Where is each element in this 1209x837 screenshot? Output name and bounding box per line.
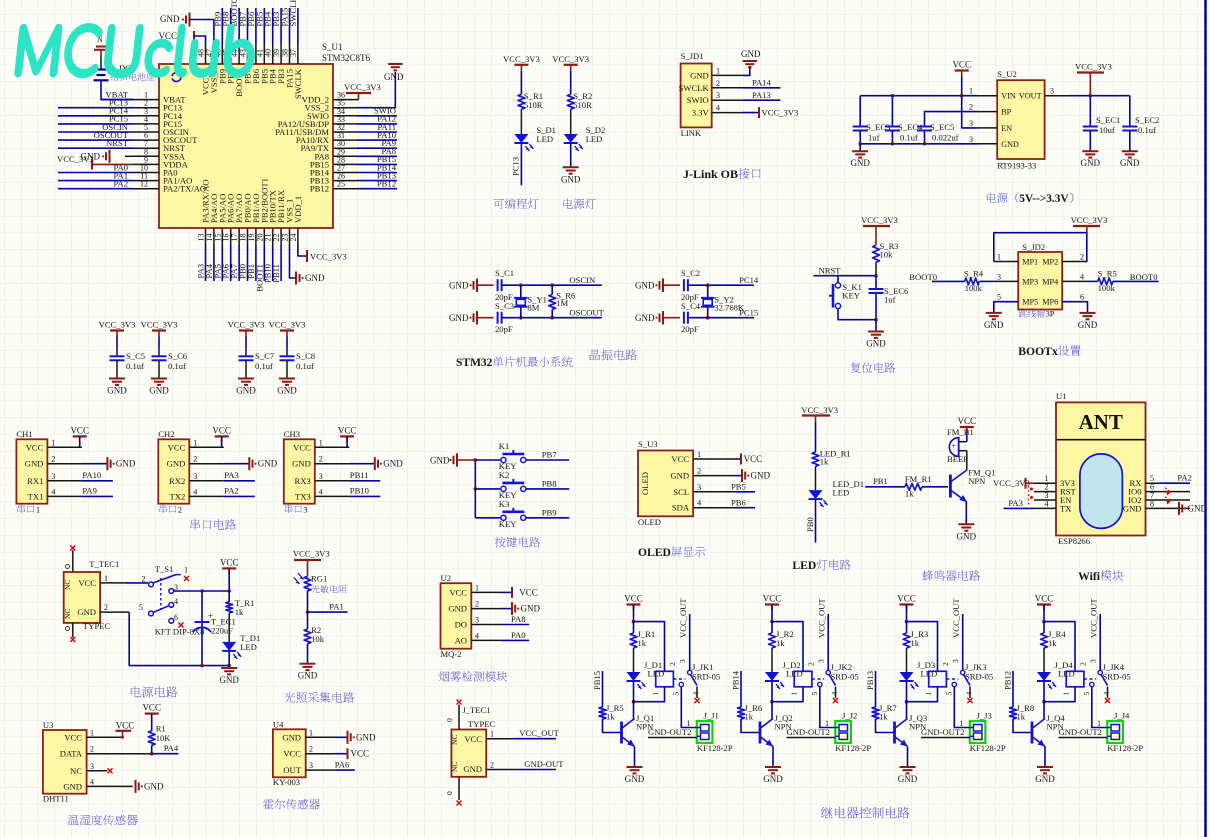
svg-text:KF128-2P: KF128-2P [697,743,733,753]
svg-text:1k: 1k [776,638,785,648]
svg-text:KF128-2P: KF128-2P [835,743,871,753]
ground at U1 VSSA pin 8 [81,150,134,163]
svg-text:MQ-2: MQ-2 [441,649,462,659]
svg-text:VCC_OUT: VCC_OUT [817,598,827,638]
svg-text:NPN: NPN [968,476,986,486]
svg-text:S_C1: S_C1 [495,268,514,278]
wire net PB15 (U1 pin 28) [357,154,397,164]
svg-text:GND: GND [448,604,467,614]
svg-text:3.3V: 3.3V [692,108,710,118]
svg-text:510R: 510R [573,100,592,110]
svg-text:Wifi: Wifi [1078,570,1101,583]
LED J_D4 [1037,660,1075,689]
wire S_C6 top [158,337,160,357]
wire LED to collector ch2 [771,681,773,719]
svg-text:0.022uf: 0.022uf [932,133,959,143]
label BOOTx title [1018,345,1080,358]
wire net VCC_OUT ch4 [1089,598,1101,671]
svg-text:S_U2: S_U2 [997,69,1017,79]
svg-text:GND: GND [521,604,541,614]
svg-text:J_J2: J_J2 [842,711,857,721]
svg-text:1k: 1k [820,457,829,467]
svg-text:1: 1 [790,692,799,696]
ground relay ch4 [1035,767,1055,784]
svg-text:MP3: MP3 [1022,277,1038,286]
svg-text:VCC: VCC [283,749,301,759]
svg-text:4: 4 [1045,499,1049,508]
svg-text:GND: GND [292,459,311,469]
label keys title [495,537,540,548]
svg-text:OSCOUT: OSCOUT [569,307,604,317]
power VCC_3V3 for S_D1 [503,54,540,71]
svg-text:J_JK2: J_JK2 [831,662,853,672]
svg-text:VCC_3V3: VCC_3V3 [141,320,178,330]
svg-text:J_JK4: J_JK4 [1103,662,1125,672]
wire net PB0 (U1 bottom) [238,245,248,281]
svg-text:VCC: VCC [26,442,44,452]
svg-text:KEY: KEY [842,291,860,301]
svg-text:20pF: 20pF [681,324,699,334]
svg-text:GND: GND [1120,158,1140,168]
wire EN to VIN rail [962,96,978,128]
svg-text:100k: 100k [965,283,983,293]
label crystal circuit title [590,349,637,360]
svg-text:NC: NC [63,580,72,590]
wire net PA3 (U1 bottom) [196,245,206,281]
display S_U3 OLED body [638,439,736,527]
svg-text:25: 25 [337,180,345,189]
svg-text:4: 4 [174,597,178,606]
wire J_R5 to base ch1 [603,719,622,733]
wire VCC to relay coil ch1 [634,622,665,672]
connector CH1 body [16,429,82,514]
svg-text:GND: GND [298,671,318,681]
shield stubs T_TEC1 [66,546,76,643]
svg-text:4: 4 [697,499,701,508]
svg-text:SWCLK: SWCLK [679,83,710,93]
wire net NRST (U1 pin 7) [58,138,133,148]
svg-text:1: 1 [319,438,323,447]
wire net PB6 (U1 top) [246,8,256,44]
svg-text:0.1uf: 0.1uf [126,361,144,371]
svg-text:KY-003: KY-003 [273,777,300,787]
wire emitter to ground ch4 [1044,747,1046,768]
svg-text:PA14: PA14 [752,78,771,88]
svg-text:37: 37 [289,49,298,57]
wire emitter to ground ch3 [907,747,909,768]
MCUclub watermark [15,25,257,77]
ground at U1 VSS_1 pin 23 [290,245,325,285]
mcu U1 bottom pins 13-24 [197,228,298,245]
wire S_C5 top [116,337,118,357]
wire net PB11 (CH3 pin3) [349,470,380,481]
svg-text:NC: NC [70,766,82,776]
ground reset [866,320,886,349]
svg-text:GND: GND [625,774,645,784]
ground at S_C4 [635,311,680,325]
wire net PA8 (U2 DO) [501,614,529,624]
connector J_TEC1 TYPEC body [450,705,514,777]
wire T bottom rail [129,612,231,667]
crystal S_Y2 32.768K [701,285,745,318]
wire VCC to relay coil ch3 [907,622,938,672]
wire net PA0 (U2 AO) [501,630,529,640]
wire to LED_R1 [815,422,817,452]
ground relay ch2 [763,767,783,784]
power VCC at U4 pin2 [335,748,369,759]
svg-text:1k: 1k [905,488,914,498]
capacitor S_C4 20pF [681,301,708,334]
svg-text:VCC: VCC [763,594,782,604]
svg-text:AO: AO [455,635,467,645]
ground relay ch1 [625,767,645,784]
shield stubs J_TEC1 [445,700,462,806]
svg-text:S_EC2: S_EC2 [1135,115,1159,125]
svg-text:GND: GND [356,732,376,742]
wire net VCC_OUT ch3 [951,598,963,671]
svg-text:0.1uf: 0.1uf [168,361,186,371]
resistor LED_R1 1k [812,449,851,467]
power VCC relay ch3 [897,594,916,624]
buzzer FM_B1 BEEP [947,427,974,464]
svg-text:CH3: CH3 [284,429,300,439]
svg-text:PB12: PB12 [377,179,396,189]
svg-text:PA2: PA2 [1177,473,1192,483]
svg-text:CH2: CH2 [158,429,174,439]
wire net PA7 (U1 bottom) [229,245,239,281]
label OLED title [638,546,705,559]
svg-text:U1: U1 [1056,391,1067,401]
svg-text:VCC: VCC [519,587,538,597]
resistor R1 10K pullup [148,724,171,756]
ground at CH1 pin2 [82,457,136,470]
svg-text:GND: GND [383,459,403,469]
svg-text:VCC_3V3: VCC_3V3 [993,478,1030,488]
svg-text:2: 2 [178,504,182,514]
crystal S_Y1 8M [514,285,547,318]
label LED circuit title [792,559,850,572]
svg-text:3: 3 [51,472,55,481]
connector J_J2 KF128-2P [835,711,871,754]
svg-text:PB6: PB6 [731,497,747,507]
resistor J_R7 1k [872,703,897,722]
resistor S_R6 1M [549,285,576,318]
svg-text:S_R5: S_R5 [1098,269,1117,279]
svg-text:GND: GND [107,386,127,396]
svg-text:S_C4: S_C4 [681,301,701,311]
ground at CH2 pin2 [224,457,278,470]
svg-text:GND: GND [160,14,180,24]
wire GND rail left [858,142,977,146]
connector J_J4 KF128-2P [1107,711,1143,754]
ground buzzer [957,524,977,541]
svg-text:3: 3 [951,659,960,663]
svg-text:K2: K2 [499,470,510,480]
wire buzzer to FM_Q1 collector [966,451,968,469]
svg-text:VCC: VCC [351,749,370,759]
svg-text:10K: 10K [156,733,172,743]
svg-text:510R: 510R [524,100,543,110]
svg-text:0: 0 [445,718,454,722]
svg-text:EN: EN [1001,124,1012,133]
wire J_R6 to base ch2 [741,719,760,733]
svg-text:LED: LED [792,559,816,572]
svg-text:5: 5 [997,293,1001,302]
connector J_J1 KF128-2P [697,711,733,754]
svg-text:BEEP: BEEP [947,454,968,464]
svg-text:GND: GND [449,313,469,323]
wire net PB11 (U1 bottom) [271,245,281,283]
svg-text:5: 5 [810,692,819,696]
svg-text:J_JK3: J_JK3 [965,662,987,672]
svg-text:VCC_3V3: VCC_3V3 [801,405,838,415]
ground at U4 pin1 [335,731,376,744]
wire VOUT rail [1069,94,1130,98]
svg-text:KF128-2P: KF128-2P [970,743,1006,753]
svg-text:GND: GND [282,732,301,742]
svg-text:1k: 1k [235,607,244,617]
svg-text:+: + [952,442,957,451]
svg-text:4: 4 [1102,692,1111,696]
wire net PC13 below S_D1 [511,143,522,185]
power VCC_3V3 at S_U2 VOUT [1075,62,1112,96]
capacitor S_EC4 0.1uf [885,96,923,144]
wire net PA3 (CH2 pin3) [224,470,255,481]
svg-text:1: 1 [490,730,494,739]
wire net PB3 (U1 top) [271,8,281,44]
wire net PA9 (CH1 pin4) [82,486,113,497]
ground below S_EC1 [1081,151,1101,168]
svg-text:8: 8 [1150,499,1154,508]
svg-text:1uf: 1uf [868,133,880,143]
svg-text:3: 3 [303,504,307,514]
resistor J_R5 1k [599,703,624,722]
wire net PA0 (U1 pin 10) [58,162,133,172]
push button S_K1 KEY [829,276,876,320]
svg-text:1: 1 [104,574,108,583]
svg-text:2: 2 [1080,253,1084,262]
svg-text:SRD-05: SRD-05 [831,672,859,682]
power VCC_3V3 reset [861,215,898,245]
wire net PA2 (CH2 pin4) [224,486,255,497]
svg-text:TX1: TX1 [28,491,44,501]
capacitor S_C2 20pF [681,268,708,302]
svg-text:TX: TX [1060,503,1072,513]
wire net PA8 (U1 pin 29) [357,146,397,156]
wire net NRST [814,265,878,277]
svg-text:PB12: PB12 [1003,671,1013,690]
svg-text:VCC_3V3: VCC_3V3 [861,215,898,225]
svg-text:S_R4: S_R4 [964,269,984,279]
LED J_D2 [765,660,803,689]
svg-text:J_J1: J_J1 [704,711,719,721]
ground at S_C1 [449,279,494,293]
svg-text:T_TEC1: T_TEC1 [89,559,119,569]
mcu U1 right pins 25-36 [333,91,357,189]
svg-text:5V-->3.3V: 5V-->3.3V [1019,193,1069,205]
svg-text:SDA: SDA [672,503,690,513]
svg-text:MP4: MP4 [1042,277,1058,286]
label J-Link OB title [683,167,761,181]
capacitor S_C1 20pF [495,268,521,302]
svg-text:S_JD2: S_JD2 [1022,242,1045,252]
wire relay contact to J_J2 ch2 [820,687,836,728]
label smoke sensor title [439,671,508,682]
svg-text:1k: 1k [745,712,754,722]
svg-text:1k: 1k [606,712,615,722]
svg-text:3: 3 [475,616,479,625]
label light sensor title [284,692,354,703]
svg-text:PA9: PA9 [82,486,97,496]
svg-text:VCC_3V3: VCC_3V3 [310,252,347,262]
svg-text:RX2: RX2 [169,476,185,486]
transistor J_Q3 NPN [895,713,928,747]
svg-text:1: 1 [475,583,479,592]
svg-text:VDD_1: VDD_1 [293,196,303,223]
ground S_U2 left [850,144,870,168]
svg-text:VCC_3V3: VCC_3V3 [344,82,381,92]
svg-text:ANT: ANT [1079,410,1123,434]
svg-text:U4: U4 [273,720,284,730]
wire relay coil to LED junction ch2 [770,687,803,704]
svg-text:S_EC5: S_EC5 [930,122,954,132]
svg-text:5: 5 [672,692,681,696]
svg-text:PB0: PB0 [805,517,815,532]
svg-text:GND: GND [1001,140,1019,149]
regulator S_U2 RT9193-33 body [969,69,1069,171]
wire net GND-OUT2 ch3 [921,727,970,738]
svg-text:0.1uf: 0.1uf [255,361,273,371]
wire relay contact to J_J4 ch4 [1092,687,1108,728]
svg-text:GND: GND [984,320,1004,330]
ground below S_C6 [149,360,169,395]
push button K2 KEY [475,470,526,500]
svg-text:MP6: MP6 [1042,298,1058,307]
wire net SWCLK (U1 top) [288,0,298,44]
svg-text:R1: R1 [156,724,166,734]
photoresistor RG1 [294,573,327,591]
power VCC_3V3 at U1 VDDA pin 9 [57,154,133,169]
svg-text:1: 1 [716,66,720,75]
svg-text:2: 2 [319,455,323,464]
resistor J_R2 1k [769,622,794,672]
svg-text:GND: GND [77,607,96,617]
no-ERC marks U1 IO0 IO2 [1165,488,1171,505]
svg-text:4: 4 [1080,272,1084,281]
svg-text:0: 0 [445,791,454,795]
wire net PA13 (S_JD1 pin 3) [742,90,780,100]
svg-text:1uf: 1uf [884,295,896,305]
ground at S_JD1 pin 1 [741,49,761,75]
mcu U1 STM32C8T6 body [159,42,371,228]
svg-text:FM_B1: FM_B1 [947,427,974,437]
power VCC relay ch1 [624,594,643,624]
svg-text:3: 3 [969,119,973,128]
label power title [987,192,1073,205]
wire net PA6 (U1 bottom) [221,245,231,281]
wire net OSCIN (U1 pin 5) [58,122,133,132]
svg-text:TX2: TX2 [170,491,186,501]
svg-text:0.1uf: 0.1uf [900,133,918,143]
switch T_S1 KFT DIP [126,564,205,637]
wire net GND-OUT2 ch2 [787,727,836,738]
svg-text:3: 3 [817,659,826,663]
ground at S_C2 [635,279,680,293]
svg-text:GND: GND [763,774,783,784]
svg-text:1: 1 [651,692,660,696]
power VCC at U3 pin1 [116,721,135,739]
label programmable LED title [494,198,539,209]
svg-text:100k: 100k [1098,283,1116,293]
wire S_R2 top [570,71,572,95]
power VCC_3V3 for S_C5 [99,320,136,337]
svg-text:VCC_3V3: VCC_3V3 [762,108,799,118]
svg-text:NC: NC [450,735,459,745]
svg-text:10uf: 10uf [1099,125,1115,135]
wire BP to S_EC5 [925,112,978,127]
svg-text:OSCIN: OSCIN [569,275,596,285]
wire net SWIO (U1 pin 34) [357,106,397,116]
wire net PB7 (U1 top) [238,8,248,44]
resistor J_R6 1k [738,703,763,722]
power VCC_3V3 at U1 VDD_2 pin 36 [344,82,381,100]
svg-text:3: 3 [309,761,313,770]
ground at U1 GND pin8 [1179,502,1207,515]
svg-text:PA2: PA2 [224,486,239,496]
svg-text:2: 2 [807,662,816,666]
svg-text:2: 2 [1079,662,1088,666]
svg-text:S_C5: S_C5 [126,351,145,361]
label power LED title [564,199,596,209]
svg-text:0.1uf: 0.1uf [1138,125,1156,135]
svg-text:STM32C8T6: STM32C8T6 [322,53,371,63]
svg-text:1k: 1k [879,712,888,722]
wire net PA4 (U3 DATA) [152,743,179,754]
label photoresistor value [311,585,346,593]
label STM32 minimal system title [456,356,573,369]
svg-text:ESP8266: ESP8266 [1058,536,1091,546]
wire net PB8 (U1 top) [221,8,231,44]
svg-text:2: 2 [104,603,108,612]
svg-text:GND: GND [850,158,870,168]
wire net PA15 (U1 top) [280,8,290,44]
svg-text:OLED: OLED [640,472,650,495]
label hall sensor title [263,799,320,810]
svg-text:4: 4 [965,692,974,696]
svg-text:1: 1 [309,728,313,737]
wire net PA1 (U1 pin 11) [58,170,133,180]
svg-text:U2: U2 [441,573,452,583]
LED S_D2 [564,125,606,151]
label reset circuit title [851,363,896,373]
svg-text:VCC_3V3: VCC_3V3 [1071,215,1108,225]
svg-text:S_C2: S_C2 [681,268,700,278]
svg-text:SRD-05: SRD-05 [1103,672,1131,682]
svg-text:PB7: PB7 [542,450,558,460]
svg-text:1: 1 [997,253,1001,262]
wire net PA14 (S_JD1 pin 2) [742,78,780,88]
wire relay contact to J_J1 ch1 [681,687,697,728]
svg-text:GND: GND [277,386,297,396]
power VCC_3V3 at S_JD1 pin 4 [742,107,798,118]
svg-text:DATA: DATA [60,749,83,759]
svg-text:GND: GND [149,386,169,396]
connector CH3 body [284,429,350,514]
wire net GND-OUT2 ch4 [1059,727,1108,738]
svg-text:4: 4 [716,104,720,113]
wire net PA2 (U1 pin 12) [58,179,133,189]
svg-text:3P: 3P [1046,309,1055,319]
